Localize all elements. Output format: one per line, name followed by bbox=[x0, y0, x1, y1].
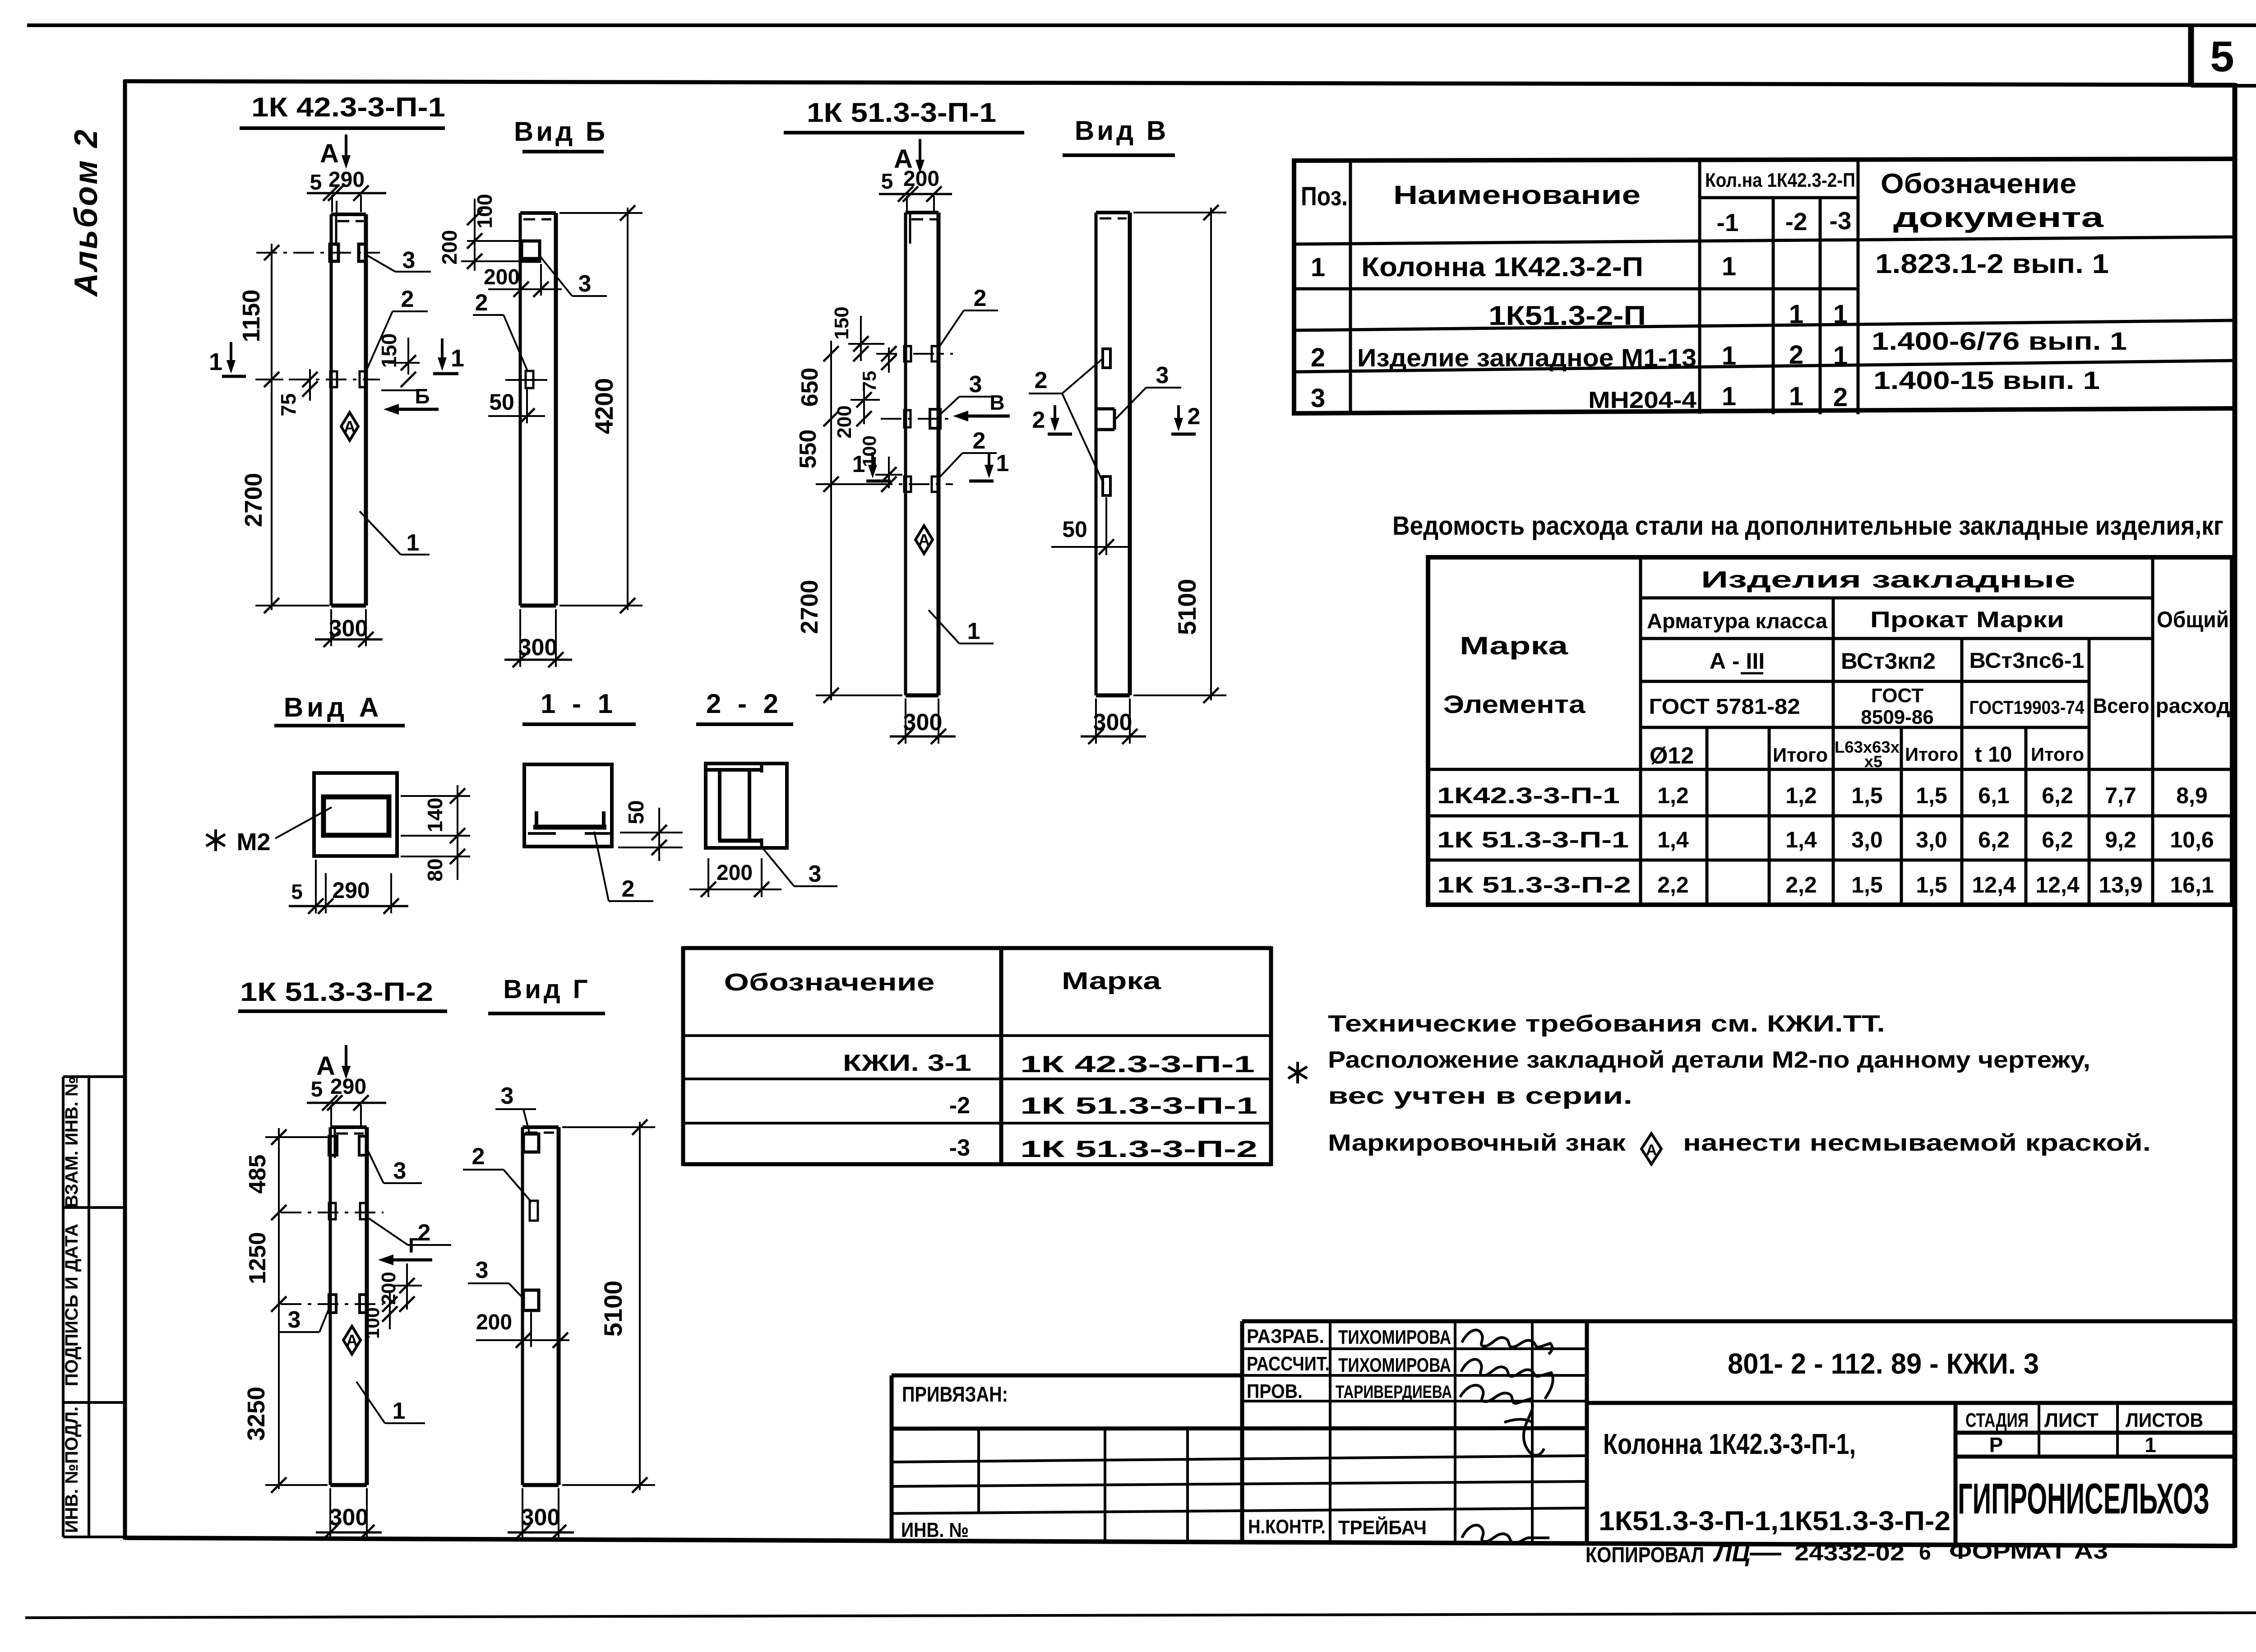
stamp signature 3 bbox=[1460, 1385, 1544, 1455]
svg-text:1250: 1250 bbox=[245, 1232, 271, 1284]
svg-text:1: 1 bbox=[1833, 341, 1848, 370]
fig3 leader 1 bbox=[929, 610, 959, 643]
fig1 embed item2 left bbox=[330, 371, 337, 387]
sec11 channel embed bbox=[533, 825, 606, 830]
svg-text:А: А bbox=[320, 139, 339, 168]
svg-text:2: 2 bbox=[472, 1143, 485, 1170]
fig5 leader 2 bbox=[365, 1216, 408, 1245]
svg-text:1: 1 bbox=[1833, 300, 1848, 329]
svg-text:ТИХОМИРОВА: ТИХОМИРОВА bbox=[1338, 1354, 1451, 1376]
svg-text:7,7: 7,7 bbox=[2105, 783, 2136, 808]
svg-text:1: 1 bbox=[2145, 1433, 2156, 1457]
fig1 top inset line bbox=[335, 216, 337, 246]
fig5 centre line lower bbox=[281, 1303, 384, 1305]
svg-text:ТАРИВЕРДИЕВА: ТАРИВЕРДИЕВА bbox=[1336, 1382, 1452, 1402]
svg-text:2: 2 bbox=[1188, 403, 1201, 430]
svg-text:ЛИСТОВ: ЛИСТОВ bbox=[2126, 1409, 2203, 1431]
fig2 column outline bbox=[520, 213, 556, 606]
svg-text:t 10: t 10 bbox=[1975, 743, 2012, 767]
svg-text:-3: -3 bbox=[949, 1135, 970, 1161]
viewA label M2 bbox=[206, 829, 225, 851]
FIGURE 3: column 1K51.3-3-P-1 front view bbox=[784, 97, 1024, 744]
svg-text:ЛЦ: ЛЦ bbox=[1713, 1538, 1750, 1567]
svg-text:Р: Р bbox=[1989, 1433, 2003, 1457]
svg-text:5: 5 bbox=[881, 170, 893, 194]
fig1 left dimension line bbox=[271, 244, 273, 610]
fig2 embed item2 bbox=[526, 371, 533, 388]
svg-text:Итого: Итого bbox=[1905, 744, 1958, 765]
svg-text:Вид А: Вид А bbox=[284, 692, 382, 722]
svg-text:2700: 2700 bbox=[796, 580, 823, 634]
svg-text:ГОСТ: ГОСТ bbox=[1871, 685, 1923, 707]
svg-text:А: А bbox=[918, 531, 930, 549]
svg-text:Элемента: Элемента bbox=[1443, 690, 1586, 718]
fig6 embed item3 top bbox=[523, 1134, 539, 1152]
svg-text:1.823.1-2 вып. 1: 1.823.1-2 вып. 1 bbox=[1875, 249, 2109, 279]
svg-text:290: 290 bbox=[328, 168, 365, 192]
svg-text:1К 51.3-3-П-1: 1К 51.3-3-П-1 bbox=[807, 97, 996, 128]
svg-text:1: 1 bbox=[407, 530, 420, 556]
svg-text:10,6: 10,6 bbox=[2170, 827, 2214, 852]
svg-text:Обозначение: Обозначение bbox=[1881, 168, 2076, 199]
svg-text:3: 3 bbox=[969, 371, 982, 398]
svg-text:1К 42.3-3-П-1: 1К 42.3-3-П-1 bbox=[251, 92, 445, 122]
fig3 leader 3 bbox=[939, 397, 959, 415]
fig3 embed item3 left bbox=[904, 410, 911, 427]
fig2 embed item3 top bbox=[522, 241, 540, 261]
svg-text:1,4: 1,4 bbox=[1785, 827, 1817, 852]
fig5 left dimension line bbox=[278, 1128, 280, 1489]
svg-text:2: 2 bbox=[973, 428, 986, 454]
svg-text:100: 100 bbox=[362, 1307, 383, 1339]
svg-text:ВСт3пс6-1: ВСт3пс6-1 bbox=[1969, 649, 2085, 673]
fig5 leader 1 bbox=[356, 1382, 385, 1423]
svg-text:нанести несмываемой краской.: нанести несмываемой краской. bbox=[1683, 1130, 2151, 1156]
fig2 leader 3 bbox=[540, 256, 572, 296]
svg-text:1: 1 bbox=[1789, 382, 1803, 411]
svg-text:3: 3 bbox=[393, 1158, 407, 1184]
svg-text:2: 2 bbox=[1789, 340, 1803, 370]
viewA outer plate bbox=[314, 773, 397, 856]
svg-text:Г: Г bbox=[408, 1234, 420, 1257]
svg-text:1,5: 1,5 bbox=[1916, 872, 1947, 898]
fig1 dim 75 bbox=[309, 369, 311, 401]
svg-text:6: 6 bbox=[1919, 1541, 1931, 1564]
fig3 dim 150 bbox=[860, 316, 862, 361]
svg-text:2: 2 bbox=[974, 285, 987, 311]
left stamp boxes bbox=[63, 1077, 125, 1537]
svg-text:ПОДПИСЬ И ДАТА: ПОДПИСЬ И ДАТА bbox=[62, 1224, 82, 1386]
svg-text:200: 200 bbox=[833, 405, 855, 438]
svg-text:Колонна 1К42.3-3-П-1,: Колонна 1К42.3-3-П-1, bbox=[1603, 1428, 1856, 1460]
fig3 embed item2 upper right bbox=[932, 346, 938, 361]
svg-text:Альбом 2: Альбом 2 bbox=[68, 128, 104, 297]
fig5 mark diamond A bbox=[343, 1326, 361, 1354]
fig5 dim 200 small bbox=[406, 1263, 408, 1310]
page number box bbox=[2188, 25, 2194, 87]
postable horizontals bbox=[1294, 198, 2234, 372]
svg-text:Всего: Всего bbox=[2093, 694, 2150, 717]
svg-text:Расположение закладной детали: Расположение закладной детали М2-по данн… bbox=[1328, 1047, 2090, 1073]
TABLE: designation-mark bbox=[683, 946, 1271, 1166]
FIGURE 6: view G side view bbox=[463, 975, 655, 1540]
sec11 leader 2 bbox=[594, 832, 609, 901]
svg-text:2 - 2: 2 - 2 bbox=[706, 689, 783, 719]
svg-text:2: 2 bbox=[1311, 343, 1325, 372]
svg-text:12,4: 12,4 bbox=[2035, 872, 2080, 898]
svg-text:3: 3 bbox=[476, 1257, 489, 1283]
steel verticals bbox=[1641, 557, 2153, 905]
stamp signature 2 bbox=[1461, 1359, 1553, 1399]
svg-text:2: 2 bbox=[622, 876, 635, 902]
fig6 embed item3 lower bbox=[523, 1290, 539, 1310]
svg-text:2: 2 bbox=[1035, 367, 1048, 393]
svg-text:Общий: Общий bbox=[2157, 607, 2229, 632]
svg-text:РАЗРАБ.: РАЗРАБ. bbox=[1247, 1325, 1324, 1347]
svg-text:МН204-4: МН204-4 bbox=[1588, 387, 1697, 413]
SECTION 2-2 bbox=[689, 689, 837, 897]
svg-text:ИНВ. №: ИНВ. № bbox=[901, 1518, 969, 1541]
viewA dim 140 80 bbox=[457, 785, 458, 880]
top border line bbox=[27, 23, 2256, 27]
svg-text:75: 75 bbox=[859, 371, 880, 392]
svg-text:1К51.3-3-П-1,1К51.3-3-П-2: 1К51.3-3-П-1,1К51.3-3-П-2 bbox=[1599, 1506, 1951, 1536]
svg-text:150: 150 bbox=[831, 306, 853, 339]
svg-text:расход: расход bbox=[2156, 694, 2230, 717]
svg-text:-1: -1 bbox=[1717, 208, 1739, 236]
svg-text:1К 51.3-3-П-1: 1К 51.3-3-П-1 bbox=[1437, 827, 1629, 852]
svg-text:2: 2 bbox=[475, 290, 488, 316]
fig1 embed item3 left bbox=[330, 244, 338, 261]
svg-text:Прокат Марки: Прокат Марки bbox=[1870, 607, 2064, 632]
svg-text:-2: -2 bbox=[1785, 208, 1808, 236]
svg-text:3: 3 bbox=[809, 861, 822, 887]
svg-text:24332-02: 24332-02 bbox=[1794, 1541, 1905, 1565]
fig3 section mark 1 right bbox=[988, 452, 990, 469]
svg-text:1: 1 bbox=[1722, 382, 1736, 411]
svg-text:550: 550 bbox=[795, 430, 821, 469]
fig5 leader 3 top bbox=[367, 1148, 384, 1183]
svg-text:4200: 4200 bbox=[590, 378, 618, 435]
svg-text:8509-86: 8509-86 bbox=[1861, 706, 1933, 728]
fig3 dim 75 bbox=[888, 347, 890, 373]
svg-text:Ø12: Ø12 bbox=[1650, 743, 1694, 769]
fig3 hidden dashed line bbox=[911, 218, 937, 221]
svg-text:200: 200 bbox=[378, 1272, 400, 1305]
fig4 hidden dashed line bbox=[1100, 217, 1127, 220]
sec22 channel embed side bbox=[706, 768, 762, 772]
svg-text:1,2: 1,2 bbox=[1657, 783, 1689, 808]
svg-text:1К 42.3-3-П-1: 1К 42.3-3-П-1 bbox=[1020, 1051, 1255, 1078]
fig6 column outline bbox=[522, 1127, 559, 1485]
sec11 dim 50 bbox=[658, 808, 660, 861]
stamp signature 1 bbox=[1462, 1330, 1552, 1354]
fig5 embed item3 low left bbox=[329, 1295, 336, 1313]
svg-text:3: 3 bbox=[1311, 384, 1325, 413]
fig1 column outline bbox=[331, 214, 366, 606]
fig5 centre line mid bbox=[281, 1212, 384, 1213]
fig5 embed item3 low right bbox=[360, 1295, 367, 1313]
fig1 embed item2 right bbox=[360, 371, 366, 387]
stamp outline horizontals bbox=[892, 1321, 2236, 1457]
svg-text:1,5: 1,5 bbox=[1851, 872, 1883, 898]
svg-text:1150: 1150 bbox=[238, 289, 265, 342]
svg-text:5: 5 bbox=[310, 171, 322, 194]
svg-text:12,4: 12,4 bbox=[1972, 872, 2016, 898]
svg-text:801- 2 - 112. 89 - КЖИ. 3: 801- 2 - 112. 89 - КЖИ. 3 bbox=[1728, 1347, 2039, 1380]
svg-text:485: 485 bbox=[245, 1155, 271, 1194]
fig3 dim 200 small bbox=[863, 387, 865, 424]
fig5 column outline bbox=[330, 1127, 367, 1485]
svg-text:300: 300 bbox=[329, 615, 368, 642]
svg-text:6,2: 6,2 bbox=[2042, 783, 2073, 808]
svg-text:650: 650 bbox=[797, 368, 823, 407]
stamp signature 4 bbox=[1462, 1525, 1549, 1543]
svg-text:1: 1 bbox=[852, 451, 865, 477]
fig4 section mark 2 right bbox=[1177, 405, 1180, 422]
fig4 leader 3 bbox=[1116, 388, 1146, 419]
svg-text:3,0: 3,0 bbox=[1916, 827, 1947, 852]
svg-text:200: 200 bbox=[717, 861, 753, 885]
svg-text:3: 3 bbox=[288, 1307, 301, 1333]
svg-text:3250: 3250 bbox=[243, 1387, 270, 1441]
svg-text:Обозначение: Обозначение bbox=[724, 969, 935, 996]
svg-text:16,1: 16,1 bbox=[2170, 872, 2214, 898]
fig4 embed item3 middle bbox=[1097, 409, 1114, 430]
SECTION VIEW A bbox=[206, 692, 470, 914]
fig3 leader 2 lower bbox=[939, 453, 962, 477]
svg-text:Марка: Марка bbox=[1460, 631, 1568, 660]
svg-text:200: 200 bbox=[903, 167, 939, 191]
fig3 centre line upper bbox=[876, 353, 953, 355]
svg-text:200: 200 bbox=[438, 230, 461, 265]
svg-text:1: 1 bbox=[393, 1398, 406, 1424]
svg-text:300: 300 bbox=[1093, 709, 1133, 736]
svg-text:1,2: 1,2 bbox=[1785, 783, 1817, 808]
svg-text:ГИПРОНИСЕЛЬХОЗ: ГИПРОНИСЕЛЬХОЗ bbox=[1958, 1475, 2210, 1523]
svg-text:1 - 1: 1 - 1 bbox=[541, 689, 617, 719]
svg-text:80: 80 bbox=[423, 858, 447, 881]
svg-text:1: 1 bbox=[1311, 253, 1325, 282]
svg-text:-2: -2 bbox=[949, 1092, 970, 1119]
inner drawing frame bbox=[125, 81, 2235, 85]
fig3 top inset line bbox=[909, 214, 911, 244]
svg-text:СТАДИЯ: СТАДИЯ bbox=[1965, 1409, 2029, 1431]
svg-text:2: 2 bbox=[401, 286, 414, 312]
svg-text:1К 51.3-3-П-1: 1К 51.3-3-П-1 bbox=[1020, 1093, 1257, 1119]
fig6 embed item2 bbox=[530, 1201, 538, 1221]
svg-text:3: 3 bbox=[402, 247, 416, 273]
svg-text:1: 1 bbox=[967, 618, 980, 644]
svg-text:1: 1 bbox=[1722, 341, 1736, 370]
svg-text:А - III: А - III bbox=[1710, 648, 1765, 674]
svg-text:1: 1 bbox=[451, 345, 464, 372]
sec22 leader 3 bbox=[763, 848, 794, 886]
sec22 concrete outline bbox=[706, 764, 787, 848]
fig2 hidden dashed line bbox=[523, 218, 551, 221]
svg-text:5100: 5100 bbox=[1173, 579, 1201, 635]
svg-text:6,2: 6,2 bbox=[2042, 827, 2073, 852]
svg-text:50: 50 bbox=[489, 389, 514, 415]
svg-text:1К 51.3-3-П-2: 1К 51.3-3-П-2 bbox=[1020, 1136, 1257, 1162]
svg-text:1,5: 1,5 bbox=[1916, 783, 1947, 808]
svg-text:Вид Б: Вид Б bbox=[514, 116, 608, 147]
svg-text:Наименование: Наименование bbox=[1393, 180, 1641, 210]
svg-text:Арматура класса: Арматура класса bbox=[1647, 609, 1827, 633]
fig6 dim 5100 bbox=[639, 1122, 641, 1490]
svg-text:х5: х5 bbox=[1864, 752, 1882, 771]
svg-text:А: А bbox=[344, 417, 356, 436]
fig3 embed item2 lower left bbox=[904, 477, 911, 492]
NOTES bbox=[1288, 1011, 2151, 1164]
fig3 dim 100 bbox=[888, 457, 890, 488]
svg-text:100: 100 bbox=[473, 194, 496, 229]
svg-text:Итого: Итого bbox=[1773, 744, 1828, 766]
svg-text:Маркировочный знак: Маркировочный знак bbox=[1328, 1130, 1626, 1156]
svg-text:А: А bbox=[346, 1331, 358, 1350]
fig3 embed item2 upper left bbox=[904, 346, 911, 361]
svg-text:2: 2 bbox=[1833, 383, 1848, 412]
TABLE: position list top right bbox=[1294, 158, 2234, 416]
fig2 dim 50 bbox=[526, 389, 528, 423]
svg-text:1К42.3-3-П-1: 1К42.3-3-П-1 bbox=[1437, 783, 1620, 808]
svg-text:М2: М2 bbox=[236, 828, 270, 856]
svg-text:Колонна 1К42.3-2-П: Колонна 1К42.3-2-П bbox=[1361, 252, 1643, 282]
svg-text:1,4: 1,4 bbox=[1657, 827, 1689, 852]
svg-text:5: 5 bbox=[2210, 32, 2234, 81]
svg-text:1: 1 bbox=[996, 450, 1009, 477]
fig4 dim 50 bbox=[1105, 497, 1107, 555]
fig3 leader 2 upper bbox=[939, 310, 964, 347]
postable frame bbox=[1294, 158, 2234, 416]
svg-text:-3: -3 bbox=[1830, 207, 1852, 235]
FIGURE 1: column 1K42.3-3-P-1 front view bbox=[209, 92, 464, 647]
svg-text:6,1: 6,1 bbox=[1978, 783, 2010, 808]
svg-text:ИНВ. №ПОДЛ.: ИНВ. №ПОДЛ. bbox=[62, 1407, 82, 1533]
svg-text:200: 200 bbox=[484, 265, 520, 289]
svg-text:Изделия закладные: Изделия закладные bbox=[1701, 567, 2076, 593]
svg-text:1: 1 bbox=[209, 348, 222, 375]
fig1 centre line lower bbox=[289, 379, 380, 380]
fig5 embed item3 top left bbox=[329, 1136, 337, 1155]
fig6 hidden dashed line bbox=[526, 1132, 554, 1134]
note star bbox=[1288, 1062, 1307, 1083]
svg-text:6,2: 6,2 bbox=[1978, 827, 2010, 852]
svg-text:3: 3 bbox=[1156, 362, 1169, 389]
fig1 embed item3 right bbox=[359, 244, 366, 261]
svg-text:2: 2 bbox=[1032, 407, 1045, 433]
svg-text:Б: Б bbox=[415, 384, 430, 408]
svg-text:75: 75 bbox=[277, 393, 300, 416]
svg-text:1,5: 1,5 bbox=[1851, 783, 1883, 808]
viewA inner plate M2 bbox=[324, 797, 389, 835]
svg-text:ПРОВ.: ПРОВ. bbox=[1247, 1380, 1303, 1402]
SECTION 1-1 bbox=[522, 689, 683, 902]
svg-text:КОПИРОВАЛ: КОПИРОВАЛ bbox=[1586, 1543, 1704, 1567]
fig1 mark diamond A bbox=[341, 412, 358, 440]
svg-text:290: 290 bbox=[332, 878, 370, 903]
svg-text:ГОСТ19903-74: ГОСТ19903-74 bbox=[1969, 697, 2085, 718]
svg-text:1: 1 bbox=[1789, 300, 1803, 329]
svg-text:РАССЧИТ.: РАССЧИТ. bbox=[1247, 1353, 1330, 1375]
svg-text:3,0: 3,0 bbox=[1851, 827, 1883, 852]
fig1 centre line upper bbox=[256, 252, 380, 254]
svg-text:3: 3 bbox=[501, 1083, 514, 1109]
fig5 embed item2 right bbox=[360, 1203, 367, 1219]
svg-text:Вид В: Вид В bbox=[1075, 116, 1169, 146]
fig5 embed item2 left bbox=[329, 1203, 336, 1219]
svg-text:1: 1 bbox=[1722, 252, 1736, 281]
steel horizontals bbox=[1428, 598, 2232, 860]
svg-text:1К 51.3-3-П-2: 1К 51.3-3-П-2 bbox=[240, 977, 433, 1007]
fig3 left dimension line bbox=[830, 341, 832, 700]
fig1 hidden dashed line bbox=[337, 220, 364, 222]
fig3 mark diamond A bbox=[915, 526, 933, 554]
svg-text:Итого: Итого bbox=[2031, 744, 2084, 765]
svg-text:5: 5 bbox=[311, 1078, 323, 1101]
svg-text:ВСт3кп2: ВСт3кп2 bbox=[1841, 648, 1936, 674]
svg-text:Технические требования см. КЖИ: Технические требования см. КЖИ.ТТ. bbox=[1328, 1011, 1885, 1037]
svg-text:1.400-6/76 вып. 1: 1.400-6/76 вып. 1 bbox=[1872, 327, 2127, 355]
svg-text:А: А bbox=[1646, 1142, 1657, 1159]
svg-text:ЛИСТ: ЛИСТ bbox=[2044, 1409, 2099, 1431]
svg-text:2,2: 2,2 bbox=[1785, 872, 1817, 898]
svg-text:5: 5 bbox=[291, 880, 303, 903]
svg-text:ПРИВЯЗАН:: ПРИВЯЗАН: bbox=[902, 1382, 1008, 1406]
fig1 leader 1 bbox=[360, 511, 401, 555]
fig5 hidden dashed line bbox=[336, 1133, 364, 1135]
svg-text:1К51.3-2-П: 1К51.3-2-П bbox=[1489, 301, 1646, 331]
svg-text:8,9: 8,9 bbox=[2176, 783, 2208, 808]
svg-text:ФОРМАТ А3: ФОРМАТ А3 bbox=[1949, 1540, 2108, 1564]
fig1 leader 2 bbox=[365, 311, 393, 375]
svg-text:Марка: Марка bbox=[1062, 967, 1161, 995]
FIGURE 2: view B side view bbox=[438, 116, 643, 667]
svg-text:Н.КОНТР.: Н.КОНТР. bbox=[1248, 1516, 1326, 1538]
svg-text:9,2: 9,2 bbox=[2105, 827, 2136, 852]
svg-text:В: В bbox=[989, 391, 1004, 414]
svg-text:1К 51.3-3-П-2: 1К 51.3-3-П-2 bbox=[1437, 872, 1631, 898]
TABLE: steel consumption bbox=[1392, 511, 2232, 907]
svg-text:50: 50 bbox=[624, 800, 648, 824]
svg-text:документа: документа bbox=[1893, 202, 2104, 233]
svg-text:5100: 5100 bbox=[599, 1281, 627, 1337]
fig5 dim 100 bbox=[389, 1291, 391, 1329]
postable verticals bbox=[1350, 160, 1858, 414]
svg-text:2,2: 2,2 bbox=[1657, 872, 1689, 898]
note diamond A bbox=[1641, 1134, 1661, 1164]
svg-text:Кол.на 1К42.3-2-П: Кол.на 1К42.3-2-П bbox=[1705, 169, 1855, 191]
svg-text:13,9: 13,9 bbox=[2099, 872, 2142, 898]
fig2 dims 200 100 top bbox=[474, 199, 476, 271]
svg-text:вес учтен в серии.: вес учтен в серии. bbox=[1328, 1083, 1632, 1109]
svg-text:140: 140 bbox=[423, 798, 447, 833]
fig4 dim 5100 bbox=[1210, 208, 1212, 700]
svg-text:ВЗАМ. ИНВ. №: ВЗАМ. ИНВ. № bbox=[62, 1076, 82, 1208]
fig3 embed item3 right bbox=[930, 409, 940, 428]
stamp verticals bbox=[892, 1321, 1956, 1545]
fig1 leader 3 bbox=[366, 255, 395, 272]
fig5 leader 3 lower bbox=[319, 1304, 331, 1332]
svg-text:200: 200 bbox=[476, 1310, 512, 1334]
svg-text:ГОСТ 5781-82: ГОСТ 5781-82 bbox=[1649, 695, 1800, 719]
svg-text:ТРЕЙБАЧ: ТРЕЙБАЧ bbox=[1338, 1516, 1427, 1539]
marktable frame bbox=[683, 946, 1271, 1166]
svg-text:290: 290 bbox=[330, 1075, 366, 1099]
fig2 dim 4200 bbox=[627, 208, 629, 610]
svg-text:ТИХОМИРОВА: ТИХОМИРОВА bbox=[1338, 1326, 1451, 1348]
FIGURE 4: view V side view bbox=[1029, 116, 1226, 744]
